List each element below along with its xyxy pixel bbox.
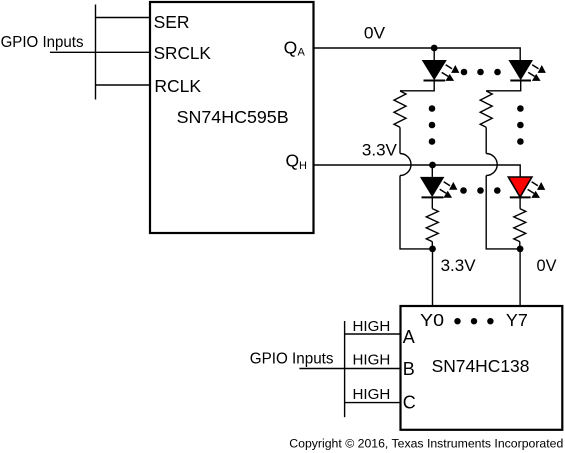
LED D4 (row2 col2, red) bbox=[508, 177, 545, 198]
svg-text:A: A bbox=[403, 327, 415, 347]
svg-text:SN74HC138: SN74HC138 bbox=[432, 356, 530, 376]
svg-text:HIGH: HIGH bbox=[353, 352, 391, 368]
wire QH to LED column 2 bbox=[315, 165, 521, 177]
wire QH junction to LED D3 anode bbox=[431, 165, 433, 177]
wire SRCLK input bbox=[50, 51, 150, 53]
wire input bus (top) bbox=[95, 5, 97, 100]
wire R3 to bottom node bbox=[431, 242, 433, 249]
resistor R4 bbox=[514, 209, 526, 242]
wire R2 down to hop bbox=[485, 127, 487, 153]
svg-text:Y0: Y0 bbox=[420, 310, 444, 330]
svg-text:H: H bbox=[299, 160, 307, 172]
pin label QA bbox=[284, 38, 306, 59]
svg-text:3.3V: 3.3V bbox=[441, 257, 476, 275]
LED D3 (row2 col1) bbox=[420, 177, 458, 198]
wire A input bbox=[345, 333, 401, 335]
node bottom junction col2 bbox=[517, 246, 524, 253]
svg-text:3.3V: 3.3V bbox=[362, 141, 397, 159]
svg-text:SN74HC595B: SN74HC595B bbox=[177, 107, 289, 127]
wire LED D1 cathode to resistor R1 bbox=[400, 81, 434, 91]
LED D2 (row1 col2) bbox=[508, 60, 546, 81]
wire R4 to bottom node bbox=[519, 242, 521, 249]
resistor R2 bbox=[480, 91, 492, 127]
wire C input bbox=[345, 402, 401, 404]
svg-text:GPIO Inputs: GPIO Inputs bbox=[1, 34, 84, 51]
svg-text:Q: Q bbox=[284, 38, 298, 58]
wire hop over QH net (col2) bbox=[486, 154, 497, 176]
LED D1 (row1 col1) bbox=[422, 60, 460, 81]
wire RCLK input bbox=[96, 84, 151, 86]
svg-text:0V: 0V bbox=[537, 257, 557, 275]
wire col2 node to Y7 bbox=[519, 249, 521, 306]
node bottom junction col1 bbox=[429, 246, 436, 253]
wire col1 node to Y0 bbox=[432, 249, 434, 306]
resistor R3 bbox=[426, 209, 438, 242]
svg-text:GPIO Inputs: GPIO Inputs bbox=[250, 350, 334, 367]
wire LED D3 cathode to resistor R3 bbox=[431, 197, 433, 208]
wire R1 down to hop bbox=[399, 127, 401, 153]
svg-text:SER: SER bbox=[154, 12, 190, 32]
wire hop to bottom node (col1) bbox=[400, 176, 433, 249]
wire SER input bbox=[96, 17, 151, 19]
svg-text:SRCLK: SRCLK bbox=[154, 43, 212, 63]
wire LED D2 cathode to resistor R2 bbox=[486, 81, 521, 91]
wire hop over QH net (col1) bbox=[400, 154, 411, 176]
svg-text:0V: 0V bbox=[364, 24, 385, 42]
svg-text:Q: Q bbox=[286, 150, 300, 170]
svg-text:Copyright © 2016, Texas Instru: Copyright © 2016, Texas Instruments Inco… bbox=[289, 436, 563, 450]
wire B input bbox=[299, 368, 400, 370]
ellipsis dots column2 bbox=[517, 105, 524, 145]
svg-text:Y7: Y7 bbox=[506, 310, 528, 330]
pin label QH bbox=[286, 150, 308, 172]
wire hop to bottom node (col2) bbox=[486, 176, 520, 249]
wire QA to LED column 2 bbox=[315, 48, 521, 60]
chip U2 SN74HC138 bbox=[401, 306, 563, 430]
svg-text:B: B bbox=[403, 359, 415, 379]
chip U1 SN74HC595B bbox=[150, 2, 314, 233]
wire input bus (bottom) bbox=[344, 321, 346, 417]
node junction QA / LED column 1 bbox=[431, 45, 438, 52]
wire QA junction to LED D1 anode bbox=[433, 48, 435, 60]
wire LED D4 cathode to resistor R4 bbox=[519, 197, 521, 208]
resistor R1 bbox=[394, 91, 406, 127]
svg-text:HIGH: HIGH bbox=[353, 387, 391, 403]
ellipsis dots column1 bbox=[429, 105, 436, 145]
ellipsis dots row2 bbox=[460, 187, 500, 194]
ellipsis dots row1 bbox=[461, 69, 501, 76]
svg-text:A: A bbox=[298, 47, 306, 59]
svg-text:RCLK: RCLK bbox=[154, 76, 201, 96]
node junction QH / LED column 1 bbox=[429, 162, 436, 169]
svg-text:C: C bbox=[403, 393, 416, 413]
ellipsis dots Y0..Y7 bbox=[454, 318, 493, 324]
svg-text:HIGH: HIGH bbox=[353, 319, 391, 335]
